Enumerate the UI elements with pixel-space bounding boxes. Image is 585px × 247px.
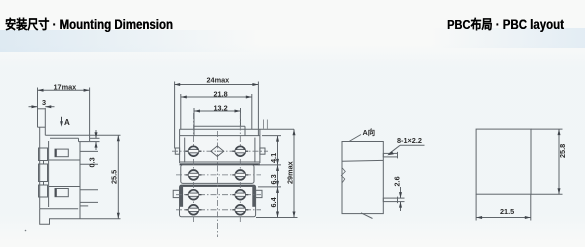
dim 3 line left seg [29,106,38,108]
arrow 21.5 R [525,216,531,219]
arrow chain top [276,136,279,142]
col left centerline [193,113,195,222]
2.6 stem lower [400,202,402,211]
bottom pin end tick [397,197,399,204]
base top line [40,208,78,210]
body left edge [179,136,181,163]
base foot left [40,209,50,225]
A arrow [61,117,63,123]
29max dim line [293,129,295,217]
raised block left v [193,126,195,135]
21.8 left ext [180,94,182,129]
25.8 dim line [558,129,560,194]
screw r3c2 [232,190,248,200]
arrow 21.5 L [476,216,482,219]
col right centerline [239,113,241,222]
svg-text:A向: A向 [363,128,376,137]
body left edge [39,127,41,209]
box outline [342,142,383,214]
raised block top [194,125,245,127]
window 2 [55,189,68,197]
right corner posts [263,120,265,129]
13.2 left ext [193,108,195,126]
lower block top thick [180,185,255,187]
svg-text:21.5: 21.5 [500,207,514,216]
header left [5,14,173,33]
screws and diamond [186,146,249,215]
dash-dot centerlines [172,113,268,237]
left box 1 [39,148,48,161]
row4 centerline [176,209,261,211]
shoulder line [180,135,260,137]
svg-text:17max: 17max [54,83,77,92]
screw r2c1 [186,170,202,180]
arrow 25.5 top [117,135,120,141]
mid block [181,165,254,184]
socket top step h [79,141,90,143]
arrow 2.6 top [399,192,402,198]
pin tick 1 [80,150,98,152]
shelf line 2 [49,186,80,188]
pcb square [476,129,531,194]
21.5 dim line [476,217,531,219]
svg-text:13.2: 13.2 [214,104,228,113]
arrow chain m1b [276,165,279,171]
arrow 2.6 bot [399,202,402,208]
left ear inner [184,138,186,163]
arrow 24max L [174,83,180,86]
svg-text:6.3: 6.3 [269,174,278,184]
24max left ext [174,82,176,149]
svg-text:2.6: 2.6 [393,176,402,186]
socket top edge [50,137,79,139]
25.8 top ext [531,128,563,130]
21.5 right ext [530,194,532,220]
body right edge [259,136,261,163]
pin tick 2 [80,163,98,165]
window 1 thick edge [55,149,57,157]
dimension texts [42,76,567,217]
right clip bump [256,190,262,197]
shelf line 1 [49,159,80,161]
21.8 right ext [251,94,253,129]
top pin end tick [397,152,399,159]
4.1/6.3/6.4 chain dim line [277,136,279,218]
tab right edge [44,108,46,135]
break zigzag [341,168,345,183]
left box 2 [39,164,48,182]
tab top [38,108,46,110]
svg-text:21.8: 21.8 [214,90,228,99]
arrow 21.8 L [181,96,187,99]
21.5 left ext [475,194,477,220]
faint scan ghost band right [430,28,585,48]
arrow chain m2a [276,181,279,187]
2.6 ext tick top [398,197,405,199]
arrow 29max bot [293,212,296,218]
screw r2c2 [232,170,248,180]
arrow 3 left [32,105,38,108]
raised block right v [244,126,246,135]
dim 17max left ext [37,88,39,109]
svg-text:24max: 24max [207,76,230,85]
arrow 0.3 up [95,132,98,138]
row3 centerline [176,194,261,196]
faint scan ghost band left [0,30,260,52]
pin tick 3 [80,189,98,191]
25.5 dim line [117,135,119,218]
13.2 right ext [240,108,242,126]
socket top step v [78,138,80,141]
tab left edge [37,108,39,127]
arrow chain m2b [276,187,279,193]
dim 21.8 line [181,96,252,98]
left side bump [175,148,179,154]
base bottom + 25.5 bottom ext [49,218,121,220]
right ear inner [254,138,256,163]
chain ext tick 165 [258,164,281,166]
inner wall [48,141,50,207]
svg-text:25.8: 25.8 [558,144,567,158]
arrow 17max R [84,89,90,92]
arrow 25.8 bot [558,188,561,194]
24max right ext [257,82,259,149]
2.6 ext tick bottom [398,201,405,203]
window 2 thick edge [55,189,57,197]
screw r3c1 [186,190,202,200]
svg-text:25.5: 25.5 [110,170,119,184]
flange right v [259,129,261,135]
0.3 arrow stem lower [95,142,97,150]
header right [447,14,564,33]
arrow 3 right [45,105,51,108]
2.6 stem upper [400,187,402,198]
tab bottom step [38,126,46,128]
leader arrow 8-1x2.2 [387,151,394,155]
arrow 13.2 R [235,110,241,113]
screw r4c2 [232,205,248,215]
bottom-left slash [361,213,373,219]
arrow 13.2 L [194,110,200,113]
arrow 24max R [252,83,258,86]
scan speck [25,230,27,232]
0.3 arrow stem upper [95,130,97,138]
screw r1c2 [232,146,248,156]
25.8 bottom ext [531,193,563,195]
svg-text:29max: 29max [286,161,295,184]
bottom pin [383,198,397,202]
lower block [180,185,256,217]
flange top line + 29max ext [180,128,294,130]
box divider line [342,159,383,162]
arrow 29max top [293,129,296,135]
8-1x2.2 leader [389,145,401,154]
dim 17max line [38,89,90,91]
diamond [211,146,224,156]
svg-text:3: 3 [42,98,46,107]
left clip bar [180,185,183,207]
svg-text:6.4: 6.4 [269,196,278,207]
left box connector 1 [43,161,45,165]
pin tick 5 [80,205,88,207]
left clip bump [173,190,179,197]
bottom ext line shared [256,217,298,219]
arrow 21.8 R [246,96,252,99]
separator thick 1 [180,161,260,163]
arrowheads [32,83,561,219]
svg-text:8-1×2.2: 8-1×2.2 [397,136,422,145]
dim 13.2 line [194,110,241,112]
arrow 25.8 top [558,129,561,135]
col mid centerline [217,131,219,237]
screw r4c1 [186,205,202,215]
right clip bar [252,185,255,207]
screw r1c1 [186,146,202,156]
flange left v [179,129,181,135]
chain ext tick 186.5 [258,186,281,188]
0.3 tick upper [90,137,100,139]
dim 3 line right seg [45,106,54,108]
row1 centerline [172,150,268,152]
left box 3 [39,185,48,197]
arrow chain m1a [276,159,279,165]
0.3 tick lower [90,141,100,143]
relay bottom line [45,134,89,136]
row2 centerline [176,174,261,176]
8-1x2.2 leader shoulder [400,144,425,146]
svg-text:4.1: 4.1 [269,153,278,163]
chain ext tick top [262,135,281,137]
arrow chain bot [276,212,279,218]
body right edge [79,142,81,219]
svg-text:A: A [64,118,70,127]
arrow 17max L [38,89,44,92]
dim 24max line [174,84,258,86]
arrow 25.5 bot [117,213,120,219]
dim 17max right ext [89,88,91,142]
left box connector 2 [43,182,45,186]
A向 leader slash [349,135,361,142]
top section bg [180,136,260,162]
window 1 [55,149,68,157]
pin tick 4 [80,201,98,203]
top pin [383,153,397,157]
right side bump [260,148,265,154]
arrow 0.3 dn [95,142,98,148]
25.5 top ext [90,134,121,136]
svg-text:0.3: 0.3 [88,157,97,167]
